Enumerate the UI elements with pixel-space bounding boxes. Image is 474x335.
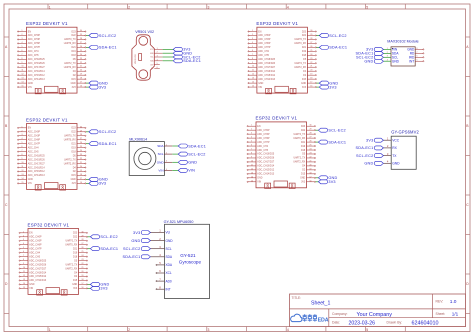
svg-text:ESP32 DEVKIT V1: ESP32 DEVKIT V1 bbox=[26, 117, 68, 122]
svg-text:GND: GND bbox=[257, 178, 262, 180]
svg-text:12: 12 bbox=[22, 74, 24, 76]
svg-text:ADC_CH18/D25: ADC_CH18/D25 bbox=[257, 153, 275, 156]
svg-text:ADC_CH4: ADC_CH4 bbox=[258, 50, 269, 53]
frame row letters left bbox=[5, 45, 8, 286]
svg-text:MLX90614: MLX90614 bbox=[129, 138, 147, 142]
svg-text:AD0: AD0 bbox=[166, 279, 172, 283]
svg-text:ADC_CH6P: ADC_CH6P bbox=[29, 243, 42, 246]
svg-text:4: 4 bbox=[252, 42, 253, 44]
wire MAX30102 pin 3 bbox=[383, 56, 391, 58]
svg-text:GND: GND bbox=[392, 59, 400, 63]
svg-text:2: 2 bbox=[251, 129, 252, 131]
svg-text:15: 15 bbox=[22, 182, 24, 184]
svg-text:5: 5 bbox=[23, 247, 24, 249]
svg-text:3: 3 bbox=[208, 328, 210, 332]
svg-text:22: 22 bbox=[310, 156, 312, 158]
svg-text:18: 18 bbox=[82, 279, 84, 281]
svg-text:1: 1 bbox=[23, 231, 24, 233]
svg-text:Sheet_1: Sheet_1 bbox=[311, 301, 330, 307]
svg-text:ADC_CH14/D13: ADC_CH14/D13 bbox=[258, 78, 276, 81]
svg-text:INT: INT bbox=[409, 59, 414, 63]
svg-text:ADC_CH6P: ADC_CH6P bbox=[257, 137, 270, 140]
frame column ticks bottom bbox=[48, 327, 405, 332]
net flag SDA-EC1 (GPS) bbox=[356, 146, 384, 150]
svg-text:20: 20 bbox=[80, 70, 82, 72]
svg-text:EN: EN bbox=[28, 31, 32, 33]
svg-text:SDA: SDA bbox=[157, 144, 164, 148]
svg-text:D21: D21 bbox=[302, 47, 307, 49]
svg-text:2: 2 bbox=[166, 153, 167, 155]
svg-text:D23: D23 bbox=[71, 128, 76, 130]
svg-text:13: 13 bbox=[22, 174, 24, 176]
svg-text:VIN: VIN bbox=[29, 288, 33, 290]
svg-text:14: 14 bbox=[22, 178, 24, 180]
svg-text:UART0_RX: UART0_RX bbox=[294, 42, 306, 45]
svg-text:UART2_RX: UART2_RX bbox=[294, 66, 306, 69]
svg-text:23: 23 bbox=[310, 58, 312, 60]
svg-text:10: 10 bbox=[23, 267, 25, 269]
svg-text:27: 27 bbox=[82, 243, 84, 245]
svg-text:3: 3 bbox=[23, 239, 24, 241]
svg-text:VIN: VIN bbox=[258, 87, 262, 89]
svg-text:11: 11 bbox=[23, 271, 25, 273]
svg-text:ADC_CH17/D27: ADC_CH17/D27 bbox=[28, 162, 46, 165]
wire net SCL-EC2 bbox=[86, 35, 89, 37]
svg-text:UART2_TX: UART2_TX bbox=[294, 62, 306, 65]
svg-text:Date:: Date: bbox=[332, 321, 340, 325]
svg-text:11: 11 bbox=[22, 70, 24, 72]
svg-text:16: 16 bbox=[310, 86, 312, 88]
svg-text:3: 3 bbox=[251, 133, 252, 135]
svg-text:4: 4 bbox=[157, 59, 158, 61]
svg-text:SCL-EC2: SCL-EC2 bbox=[123, 247, 140, 251]
svg-text:26: 26 bbox=[310, 46, 312, 48]
frame column numbers top bbox=[49, 5, 369, 9]
svg-text:19: 19 bbox=[310, 74, 312, 76]
svg-text:ADC_CH7P: ADC_CH7P bbox=[258, 46, 271, 49]
svg-text:ADC_CH15/D12: ADC_CH15/D12 bbox=[258, 74, 276, 77]
svg-text:VR501 V02: VR501 V02 bbox=[135, 30, 154, 34]
svg-text:22: 22 bbox=[80, 62, 82, 64]
svg-text:ADC_CH19/D26: ADC_CH19/D26 bbox=[29, 263, 47, 266]
svg-text:17: 17 bbox=[80, 178, 82, 180]
svg-text:ESP32 DEVKIT V1: ESP32 DEVKIT V1 bbox=[256, 21, 298, 26]
svg-text:29: 29 bbox=[310, 129, 312, 131]
svg-text:1: 1 bbox=[166, 144, 167, 146]
svg-text:17: 17 bbox=[82, 283, 84, 285]
svg-text:3V3: 3V3 bbox=[302, 87, 307, 89]
module MAX30102 pulse oximeter bbox=[387, 40, 424, 67]
svg-text:13: 13 bbox=[252, 78, 254, 80]
svg-text:SDA-EC1: SDA-EC1 bbox=[183, 59, 201, 63]
svg-text:23: 23 bbox=[82, 259, 84, 261]
svg-text:7: 7 bbox=[252, 54, 253, 56]
svg-text:4: 4 bbox=[22, 42, 23, 44]
svg-text:SCL: SCL bbox=[150, 57, 153, 59]
svg-text:6: 6 bbox=[23, 251, 24, 253]
svg-text:13: 13 bbox=[22, 78, 24, 80]
module U4 ESP32 DEVKIT V1 bbox=[247, 116, 316, 189]
wire net GND bbox=[88, 283, 91, 285]
svg-text:9: 9 bbox=[251, 156, 252, 158]
svg-text:GND: GND bbox=[364, 162, 373, 166]
svg-text:SDA-EC1: SDA-EC1 bbox=[123, 255, 141, 259]
net flag SCL-EC2 (MLX90614) bbox=[178, 152, 205, 156]
svg-text:3V3: 3V3 bbox=[72, 183, 77, 185]
module U3 ESP32 DEVKIT V1 bbox=[18, 117, 87, 190]
svg-text:ADC_CH18/D25: ADC_CH18/D25 bbox=[258, 58, 276, 61]
wire net SDA-EC1 bbox=[316, 46, 319, 48]
net flag VIN (MLX90614) bbox=[178, 168, 195, 172]
svg-text:GND: GND bbox=[131, 239, 140, 243]
svg-text:28: 28 bbox=[82, 239, 84, 241]
frame row ticks right bbox=[466, 37, 471, 314]
wire net 3V3 bbox=[88, 287, 91, 289]
svg-text:D18: D18 bbox=[301, 150, 306, 152]
svg-text:8: 8 bbox=[417, 48, 418, 50]
svg-text:ADC_CH0P: ADC_CH0P bbox=[28, 131, 41, 134]
svg-text:3V3: 3V3 bbox=[301, 182, 306, 184]
svg-text:21: 21 bbox=[310, 66, 312, 68]
wire net 3V3 bbox=[316, 181, 319, 183]
svg-text:SCL-EC2: SCL-EC2 bbox=[328, 128, 345, 132]
svg-text:D15: D15 bbox=[73, 280, 78, 282]
svg-text:7: 7 bbox=[22, 54, 23, 56]
svg-text:ADC_CH5: ADC_CH5 bbox=[257, 149, 268, 152]
svg-text:OUT: OUT bbox=[150, 64, 153, 66]
svg-text:9: 9 bbox=[252, 62, 253, 64]
module GY-GPS6MV2 GPS bbox=[383, 130, 419, 170]
svg-text:GND: GND bbox=[258, 83, 263, 85]
svg-text:22: 22 bbox=[80, 158, 82, 160]
svg-text:6: 6 bbox=[157, 67, 158, 69]
wire MLX90614 pin 3 bbox=[172, 161, 178, 163]
svg-text:ADC_CH16/D14: ADC_CH16/D14 bbox=[29, 271, 47, 274]
svg-text:20: 20 bbox=[82, 271, 84, 273]
svg-text:2023-03-26: 2023-03-26 bbox=[349, 321, 376, 327]
svg-text:ADC_CH3P: ADC_CH3P bbox=[257, 133, 270, 136]
svg-text:4: 4 bbox=[166, 169, 167, 171]
svg-text:28: 28 bbox=[310, 38, 312, 40]
svg-text:20: 20 bbox=[310, 164, 312, 166]
svg-text:19: 19 bbox=[310, 168, 312, 170]
svg-text:21: 21 bbox=[80, 66, 82, 68]
svg-text:ADC_CH5: ADC_CH5 bbox=[258, 54, 269, 57]
net flag SCL-EC2 (GPS) bbox=[356, 154, 383, 158]
svg-text:12: 12 bbox=[251, 168, 253, 170]
svg-text:ADC_CH0P: ADC_CH0P bbox=[28, 34, 41, 37]
net flag SDA-EC1 (MAX30102) bbox=[356, 51, 384, 55]
net flag 3V3 (U3) bbox=[89, 181, 106, 185]
svg-text:1: 1 bbox=[251, 125, 252, 127]
svg-text:SCL-EC2: SCL-EC2 bbox=[329, 34, 346, 38]
svg-text:D15: D15 bbox=[71, 175, 76, 177]
net flag SCL-EC2 (VR501) bbox=[173, 55, 200, 59]
svg-text:ESP32 DEVKIT V1: ESP32 DEVKIT V1 bbox=[256, 116, 298, 121]
svg-text:ADC_CH7P: ADC_CH7P bbox=[28, 46, 41, 49]
module U1 ESP32 DEVKIT V1 bbox=[18, 21, 87, 94]
svg-text:RX: RX bbox=[392, 146, 397, 150]
net flag SCL-EC2 (U5) bbox=[90, 235, 117, 239]
svg-text:3V3: 3V3 bbox=[328, 180, 335, 184]
svg-text:ADC_CH15/D12: ADC_CH15/D12 bbox=[28, 170, 46, 173]
svg-text:15: 15 bbox=[22, 86, 24, 88]
svg-text:12: 12 bbox=[23, 275, 25, 277]
svg-text:ADC_CH14/D13: ADC_CH14/D13 bbox=[29, 279, 47, 282]
svg-text:1/1: 1/1 bbox=[452, 311, 459, 316]
svg-text:VCC: VCC bbox=[392, 138, 400, 142]
svg-text:SCL: SCL bbox=[158, 152, 164, 156]
svg-text:UART0_RX: UART0_RX bbox=[64, 42, 76, 45]
svg-text:6: 6 bbox=[22, 50, 23, 52]
svg-text:ADC_CH4: ADC_CH4 bbox=[28, 50, 39, 53]
svg-text:23: 23 bbox=[310, 152, 312, 154]
svg-text:6: 6 bbox=[252, 50, 253, 52]
svg-text:SDA: SDA bbox=[166, 255, 173, 259]
frame column numbers bottom bbox=[49, 328, 369, 332]
svg-text:624604010: 624604010 bbox=[412, 321, 439, 327]
net flag GND (GPS) bbox=[364, 161, 383, 165]
svg-text:11: 11 bbox=[251, 164, 253, 166]
svg-text:ADC_CH5: ADC_CH5 bbox=[29, 255, 40, 258]
svg-text:GND: GND bbox=[28, 83, 33, 85]
wire net 3V3 bbox=[86, 182, 89, 184]
svg-text:3: 3 bbox=[22, 38, 23, 40]
svg-text:ADC_CH4: ADC_CH4 bbox=[28, 146, 39, 149]
svg-text:ESP32 DEVKIT V1: ESP32 DEVKIT V1 bbox=[26, 21, 68, 26]
svg-text:27: 27 bbox=[80, 138, 82, 140]
wire net 3V3 bbox=[86, 86, 89, 88]
wire net SDA-EC1 bbox=[86, 46, 89, 48]
svg-text:D21: D21 bbox=[301, 142, 306, 144]
svg-text:ADC_CH18/D25: ADC_CH18/D25 bbox=[28, 58, 46, 61]
svg-text:ADC_CH16/D14: ADC_CH16/D14 bbox=[258, 70, 276, 73]
wire net SCL-EC2 bbox=[316, 129, 319, 131]
svg-text:Your Company: Your Company bbox=[357, 312, 393, 318]
svg-text:UART0_RX: UART0_RX bbox=[65, 243, 77, 246]
wire MAX30102 pin 1 bbox=[383, 48, 391, 50]
svg-text:VIN: VIN bbox=[28, 87, 32, 89]
svg-text:UART0_RX: UART0_RX bbox=[293, 137, 305, 140]
svg-text:GND: GND bbox=[157, 160, 165, 164]
svg-text:5: 5 bbox=[22, 46, 23, 48]
svg-text:3: 3 bbox=[208, 5, 210, 9]
svg-text:8: 8 bbox=[23, 259, 24, 261]
svg-text:ADC_CH15/D12: ADC_CH15/D12 bbox=[28, 74, 46, 77]
svg-text:26: 26 bbox=[82, 247, 84, 249]
net flag 3V3 (MAX30102) bbox=[366, 47, 383, 51]
svg-text:UART2_RX: UART2_RX bbox=[293, 161, 305, 164]
svg-text:UART2_RX: UART2_RX bbox=[64, 66, 76, 69]
net flag SDA-EC1 (U5) bbox=[90, 247, 118, 251]
wire net GND bbox=[86, 178, 89, 180]
wire MAX30102 pin 2 bbox=[383, 52, 391, 54]
module U5 ESP32 DEVKIT V1 bbox=[19, 222, 88, 295]
svg-text:D23: D23 bbox=[301, 126, 306, 128]
svg-text:GY-521: GY-521 bbox=[180, 253, 196, 258]
svg-text:GND: GND bbox=[188, 161, 197, 165]
svg-text:ADC_CH16/D14: ADC_CH16/D14 bbox=[28, 166, 46, 169]
svg-text:D18: D18 bbox=[302, 55, 307, 57]
svg-text:SCL: SCL bbox=[166, 247, 172, 251]
svg-text:26: 26 bbox=[80, 46, 82, 48]
svg-text:8: 8 bbox=[251, 152, 252, 154]
svg-text:30: 30 bbox=[310, 125, 312, 127]
svg-text:EDA: EDA bbox=[318, 317, 329, 323]
svg-text:25: 25 bbox=[82, 251, 84, 253]
svg-text:14: 14 bbox=[23, 283, 25, 285]
net flag SCL-EC2 (U2) bbox=[319, 33, 346, 37]
svg-text:ADC_CH15/D12: ADC_CH15/D12 bbox=[29, 275, 47, 278]
svg-text:Drawn By:: Drawn By: bbox=[387, 321, 403, 325]
svg-text:16: 16 bbox=[80, 86, 82, 88]
svg-text:ADC_CH7P: ADC_CH7P bbox=[28, 142, 41, 145]
svg-text:ESP32 DEVKIT V1: ESP32 DEVKIT V1 bbox=[28, 222, 70, 227]
svg-text:13: 13 bbox=[23, 279, 25, 281]
net flag SDA-EC1 (U4) bbox=[318, 140, 346, 144]
wire net SCL-EC2 bbox=[316, 35, 319, 37]
svg-text:2: 2 bbox=[252, 34, 253, 36]
svg-text:30: 30 bbox=[82, 231, 84, 233]
svg-text:D18: D18 bbox=[71, 151, 76, 153]
svg-text:ADC_CH5: ADC_CH5 bbox=[28, 150, 39, 153]
svg-text:ADC_CH17/D27: ADC_CH17/D27 bbox=[29, 267, 47, 270]
svg-text:7: 7 bbox=[251, 149, 252, 151]
svg-text:15: 15 bbox=[252, 86, 254, 88]
net flag 3V3 (U4) bbox=[318, 180, 335, 184]
svg-text:ADC_CH19/D26: ADC_CH19/D26 bbox=[258, 62, 276, 65]
svg-text:23: 23 bbox=[80, 154, 82, 156]
svg-text:4: 4 bbox=[22, 138, 23, 140]
svg-text:ADC_CH4: ADC_CH4 bbox=[29, 251, 40, 254]
svg-text:12: 12 bbox=[252, 74, 254, 76]
svg-text:2: 2 bbox=[128, 328, 130, 332]
svg-text:2: 2 bbox=[128, 5, 130, 9]
wire net SDA-EC1 bbox=[86, 143, 89, 145]
svg-text:1: 1 bbox=[49, 328, 51, 332]
svg-text:3V3: 3V3 bbox=[366, 139, 373, 143]
svg-text:5: 5 bbox=[252, 46, 253, 48]
svg-text:UART2_TX: UART2_TX bbox=[293, 157, 305, 160]
svg-text:REV:: REV: bbox=[436, 300, 444, 304]
svg-text:GND: GND bbox=[392, 162, 400, 166]
svg-text:ADC_CH17/D27: ADC_CH17/D27 bbox=[28, 66, 46, 69]
svg-text:9: 9 bbox=[22, 158, 23, 160]
net flag GND (MLX90614) bbox=[178, 160, 197, 164]
svg-text:EN: EN bbox=[257, 126, 261, 128]
svg-text:MAX30102 Module: MAX30102 Module bbox=[387, 40, 418, 44]
net flag GND (U5) bbox=[90, 282, 109, 286]
svg-text:14: 14 bbox=[252, 82, 254, 84]
svg-text:ADC_CH15/D12: ADC_CH15/D12 bbox=[257, 169, 275, 172]
wire VR501 pin 1 bbox=[163, 48, 174, 50]
net flag SDA-EC1 (U3) bbox=[89, 142, 117, 146]
svg-text:D23: D23 bbox=[71, 31, 76, 33]
svg-text:18: 18 bbox=[80, 174, 82, 176]
svg-text:GND: GND bbox=[166, 239, 174, 243]
svg-text:ADC_CH3P: ADC_CH3P bbox=[28, 134, 41, 137]
svg-text:20: 20 bbox=[80, 166, 82, 168]
svg-text:ADC_CH18/D25: ADC_CH18/D25 bbox=[28, 154, 46, 157]
svg-text:GND: GND bbox=[301, 83, 306, 85]
svg-text:30: 30 bbox=[310, 30, 312, 32]
svg-text:ADC_CH16/D14: ADC_CH16/D14 bbox=[28, 70, 46, 73]
svg-text:ADC_CH19/D26: ADC_CH19/D26 bbox=[28, 158, 46, 161]
svg-text:29: 29 bbox=[80, 34, 82, 36]
svg-text:GND: GND bbox=[29, 284, 34, 286]
net flag GND (U1) bbox=[89, 81, 108, 85]
svg-text:16: 16 bbox=[80, 182, 82, 184]
svg-text:6: 6 bbox=[417, 56, 418, 58]
svg-text:SCL-EC2: SCL-EC2 bbox=[188, 152, 205, 156]
svg-text:11: 11 bbox=[252, 70, 254, 72]
svg-text:3: 3 bbox=[166, 161, 167, 163]
net flag GND (VR501) bbox=[173, 51, 192, 55]
module GY-521 MPU6050 gyroscope bbox=[150, 220, 209, 298]
svg-text:3: 3 bbox=[22, 134, 23, 136]
svg-text:3V3: 3V3 bbox=[99, 182, 106, 186]
svg-text:UART2_TX: UART2_TX bbox=[64, 62, 76, 65]
svg-text:UART2_RX: UART2_RX bbox=[64, 162, 76, 165]
svg-text:5: 5 bbox=[157, 63, 158, 65]
svg-text:ADC_CH14/D13: ADC_CH14/D13 bbox=[28, 78, 46, 81]
frame row letters right bbox=[466, 45, 469, 286]
svg-text:D15: D15 bbox=[71, 79, 76, 81]
net flag SCL-EC2 (GY-521) bbox=[123, 247, 150, 251]
svg-text:SDA-EC1: SDA-EC1 bbox=[328, 140, 346, 144]
svg-text:22: 22 bbox=[82, 263, 84, 265]
net flag GND (MAX30102) bbox=[364, 59, 383, 63]
svg-text:27: 27 bbox=[310, 42, 312, 44]
svg-text:10: 10 bbox=[252, 66, 254, 68]
wire VR501 pin 2 bbox=[163, 52, 174, 54]
svg-text:ADC_CH14/D13: ADC_CH14/D13 bbox=[28, 174, 46, 177]
svg-text:4: 4 bbox=[23, 243, 24, 245]
svg-text:1: 1 bbox=[22, 126, 23, 128]
svg-text:26: 26 bbox=[80, 142, 82, 144]
svg-text:1: 1 bbox=[157, 48, 158, 50]
net flag SCL-EC2 (U1) bbox=[89, 33, 116, 37]
wire net GND bbox=[86, 82, 89, 84]
svg-text:D21: D21 bbox=[73, 248, 78, 250]
svg-text:SDA-EC1: SDA-EC1 bbox=[99, 142, 117, 146]
net flag SCL-EC2 (U3) bbox=[89, 130, 116, 134]
svg-text:25: 25 bbox=[310, 50, 312, 52]
svg-text:UART0_TX: UART0_TX bbox=[64, 38, 76, 41]
net flag GND (U4) bbox=[318, 176, 337, 180]
svg-text:SDA-EC1: SDA-EC1 bbox=[356, 146, 374, 150]
svg-text:8: 8 bbox=[252, 58, 253, 60]
svg-text:VIN: VIN bbox=[188, 169, 195, 173]
svg-text:SDA-EC1: SDA-EC1 bbox=[188, 144, 206, 148]
svg-text:Company:: Company: bbox=[332, 312, 348, 316]
wire net 3V3 bbox=[316, 86, 319, 88]
svg-text:6: 6 bbox=[22, 146, 23, 148]
net flag SDA-EC1 (VR501) bbox=[173, 59, 201, 63]
svg-text:1: 1 bbox=[252, 30, 253, 32]
svg-text:SDA-EC1: SDA-EC1 bbox=[100, 247, 118, 251]
svg-text:19: 19 bbox=[80, 170, 82, 172]
net flag SDA-EC1 (MLX90614) bbox=[178, 144, 206, 148]
svg-text:UART0_TX: UART0_TX bbox=[64, 134, 76, 137]
svg-text:7: 7 bbox=[417, 52, 418, 54]
svg-text:ADC_CH0P: ADC_CH0P bbox=[258, 34, 271, 37]
net flag SCL-EC2 (MAX30102) bbox=[356, 55, 383, 59]
svg-text:SDA-EC1: SDA-EC1 bbox=[99, 46, 117, 50]
net flag 3V3 (U1) bbox=[89, 85, 106, 89]
svg-text:10: 10 bbox=[22, 162, 24, 164]
svg-text:SCL-EC2: SCL-EC2 bbox=[99, 130, 116, 134]
